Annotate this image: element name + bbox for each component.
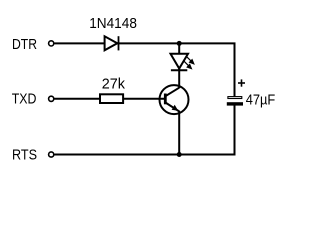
svg-text:27k: 27k [102,76,126,93]
svg-text:47µF: 47µF [246,91,276,108]
svg-text:RTS: RTS [12,146,37,163]
svg-text:TXD: TXD [12,90,37,107]
svg-text:DTR: DTR [12,36,37,53]
svg-text:1N4148: 1N4148 [89,15,137,32]
